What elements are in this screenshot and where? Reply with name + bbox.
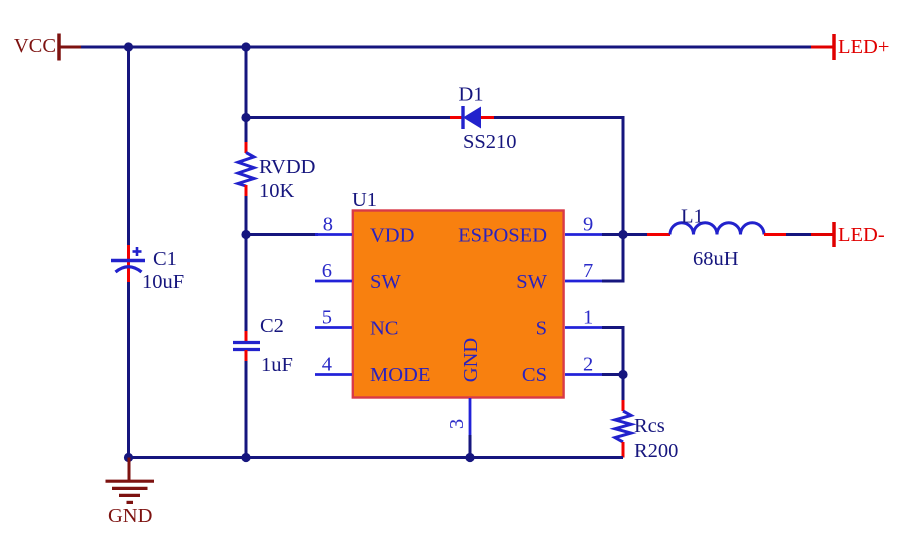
svg-text:CS: CS: [522, 364, 547, 386]
svg-text:GND: GND: [108, 505, 152, 527]
svg-text:6: 6: [322, 260, 332, 282]
pin 3 GND stub vertical: [469, 398, 472, 435]
pin 1 S stub: [565, 326, 602, 329]
svg-text:LED-: LED-: [838, 224, 885, 246]
svg-text:10uF: 10uF: [142, 271, 184, 293]
capacitor C2 1uF: [233, 315, 293, 376]
wire L1 to LED-: [786, 233, 811, 236]
svg-text:Rcs: Rcs: [634, 415, 665, 437]
node junction C2 bottom: [241, 453, 250, 462]
pin 2 CS stub: [565, 373, 602, 376]
pin 6 stub: [315, 280, 352, 283]
svg-text:5: 5: [322, 307, 332, 329]
svg-text:VCC: VCC: [14, 35, 56, 57]
node junction GND stem: [124, 453, 133, 462]
wire S down to CS row: [622, 326, 625, 375]
node junction D1 row: [241, 113, 250, 122]
svg-text:8: 8: [323, 214, 333, 236]
svg-text:SS210: SS210: [463, 131, 517, 153]
svg-text:ESPOSED: ESPOSED: [458, 225, 547, 247]
svg-text:C2: C2: [260, 315, 284, 337]
IC U1 body: [352, 189, 564, 398]
svg-text:MODE: MODE: [370, 364, 430, 386]
svg-text:RVDD: RVDD: [259, 156, 315, 178]
svg-text:L1: L1: [681, 206, 704, 228]
diode D1 SS210: [450, 84, 517, 154]
node junction pin3 bottom rail: [465, 453, 474, 462]
wire top rail VCC to LED+: [81, 46, 811, 49]
svg-text:NC: NC: [370, 318, 398, 340]
ground GND symbol: [106, 458, 155, 528]
resistor RVDD 10K: [238, 142, 315, 202]
svg-text:9: 9: [583, 214, 593, 236]
resistor Rcs R200: [615, 400, 678, 462]
node junction pin8 row: [241, 230, 250, 239]
pin 4 stub: [315, 373, 352, 376]
wire C2 to bottom rail: [245, 361, 248, 458]
wire D1 anode to right bus: [494, 116, 625, 119]
svg-text:VDD: VDD: [370, 225, 414, 247]
capacitor C1: [111, 245, 184, 293]
svg-text:SW: SW: [516, 271, 547, 293]
svg-text:1uF: 1uF: [261, 354, 293, 376]
port LED-: [811, 222, 885, 247]
svg-text:3: 3: [446, 419, 468, 429]
wire pin9 node to L1: [623, 233, 647, 236]
wire C1 branch upper: [127, 47, 130, 245]
port LED+: [811, 34, 889, 60]
svg-text:2: 2: [583, 354, 593, 376]
svg-text:C1: C1: [153, 248, 177, 270]
wire right bus vertical to SW pin7: [622, 116, 625, 281]
svg-text:S: S: [536, 318, 547, 340]
wire D1 row from node to diode: [246, 116, 450, 119]
wire CS node down to Rcs: [622, 375, 625, 401]
pin 9 ESPOSED stub: [565, 233, 602, 236]
svg-text:7: 7: [583, 260, 593, 282]
node junction RVDD top: [241, 42, 250, 51]
svg-text:1: 1: [583, 307, 593, 329]
pin 7 SW stub: [565, 280, 602, 283]
svg-text:68uH: 68uH: [693, 248, 739, 270]
node junction pin9 / L1: [618, 230, 627, 239]
pin 8 stub: [315, 233, 352, 236]
svg-text:4: 4: [322, 354, 332, 376]
port VCC: [14, 34, 81, 61]
inductor L1 68uH: [647, 206, 786, 271]
wire RVDD branch from top rail: [245, 47, 248, 142]
wire bottom rail: [129, 456, 624, 459]
node junction CS / Rcs: [618, 370, 627, 379]
pin 8 VDD wire from RVDD node: [246, 233, 318, 236]
svg-text:D1: D1: [458, 84, 483, 106]
svg-text:10K: 10K: [259, 180, 295, 202]
node junction C1 top: [124, 42, 133, 51]
svg-text:U1: U1: [352, 189, 377, 211]
wire RVDD to pin8 node: [245, 196, 248, 331]
svg-text:LED+: LED+: [838, 36, 889, 58]
pin 5 stub: [315, 326, 352, 329]
svg-text:SW: SW: [370, 271, 401, 293]
svg-text:GND: GND: [460, 338, 482, 382]
svg-text:R200: R200: [634, 440, 678, 462]
wire C1 to bottom rail: [127, 282, 130, 458]
